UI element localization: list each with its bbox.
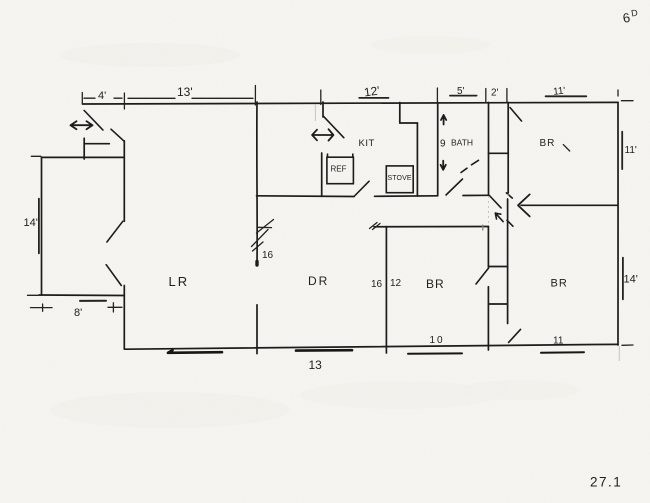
wire hall upper east wall [507,103,509,193]
svg-text:STOVE: STOVE [388,175,412,182]
door hall small leaf [506,193,512,198]
hatch on DR/BR wall [370,223,381,230]
wire left room top wall [42,156,124,158]
svg-text:REF: REF [331,165,347,174]
dim underline below left room wall [80,300,106,302]
svg-text:DR: DR [308,274,329,288]
door hall leaf 3 [507,220,513,226]
wire middle BR top wall [374,226,488,228]
dim line 13ft [128,97,253,99]
svg-text:KIT: KIT [359,138,375,149]
door left room leaf upper [107,221,123,242]
hatch diag 1 [257,220,274,234]
wire LR/DR wall end blob [255,262,258,266]
dim line right 14ft [622,258,624,300]
dim tick 8ft right [112,303,114,312]
wire faint continuation below bottom-right corner [618,346,620,361]
wire entry stub wall [83,138,85,159]
arrow 9 dim down [441,161,446,170]
svg-text:11': 11' [625,145,637,156]
dim line right 11ft [621,132,623,169]
svg-text:14': 14' [24,217,38,229]
dim line 5ft overline [450,95,477,97]
scan noise [50,36,580,428]
door entry leaf 2 [111,129,124,141]
svg-text:4': 4' [98,90,106,102]
svg-text:12': 12' [363,83,380,99]
wire hall lower rung 1 [488,266,507,268]
hatch diag 2 [252,230,269,247]
door bath swing dash 2 [472,160,479,165]
dim tick 12ft left [320,90,322,105]
svg-text:16: 16 [262,250,274,261]
svg-text:BR: BR [426,277,445,291]
dim underline below wall (13) [296,349,352,352]
door left room leaf lower [106,265,121,286]
wire hall lower east wall [507,199,509,324]
svg-text:14': 14' [624,274,638,286]
wire BR divider wall with arrow shaft [521,204,617,206]
arrow kitchen double [312,129,333,140]
wire entry closet shelf [84,143,109,145]
svg-text:16: 16 [371,279,383,290]
wire kitchen west stub lower [321,153,323,196]
wire DR/BR wall [385,227,387,353]
dim tick left room bottom corner [28,294,40,296]
wire left exterior wall lower segment [123,286,125,350]
svg-text:27.1: 27.1 [590,475,622,490]
door BR1 leaf [510,108,522,122]
wire kitchen/DR wall west part [257,195,355,198]
svg-text:12: 12 [390,278,402,289]
wire hall upper west wall [488,103,490,195]
dim line 8ft left piece [31,307,53,309]
wire faint hall wall continuation right [507,194,509,199]
svg-text:BR: BR [540,138,556,149]
wire bath west wall [437,103,439,196]
wire left room bottom wall [39,294,124,297]
wire bath south wall [463,194,489,196]
dim line 8ft right piece [108,306,122,308]
svg-text:2': 2' [491,88,499,99]
wire kitchen east wall [416,123,418,196]
door entry leaf 1 [84,111,103,131]
dim tick 8ft left [42,304,44,311]
dim tick left room top corner [31,155,41,157]
dim line left 14ft [38,199,40,254]
arrow entry double [71,121,93,129]
dim line 11ft overline [546,95,587,97]
dim underline below wall (11) [541,351,584,354]
svg-text:5': 5' [457,86,465,97]
hatch diag 3 [253,242,264,251]
dim underline below wall (LR) with hook [168,350,222,353]
dim tick bottom-right corner [622,344,633,346]
wire kitchen west stub upper [322,102,324,117]
wire hall lower west wall lower [487,287,489,350]
door bath leaf [446,179,463,195]
dim tick 4ft right [123,93,125,109]
stray mark near BR1 [563,145,569,151]
wire bottom exterior wall [125,344,619,349]
svg-text:10: 10 [430,335,445,346]
hatch on LR/DR wall tick [257,226,271,228]
wire hall lower west wall upper [487,227,489,267]
wire LR/DR wall upper [256,102,258,265]
door bath swing dash 1 [461,168,467,172]
wire top exterior wall [83,102,619,104]
tick on middle BR top wall [482,225,484,230]
svg-text:BATH: BATH [451,138,473,148]
wire left room left wall [41,157,43,295]
svg-text:13: 13 [309,358,323,372]
wire faint pencil stub kitchen door [314,104,316,121]
wire hall upper rung [489,152,509,154]
refrigerator REF box [327,157,354,184]
dim line 4ft [84,97,122,99]
svg-text:9: 9 [440,139,446,150]
wire right exterior wall [617,102,619,345]
stove box [386,166,413,193]
dim tick top-left 4ft left [81,93,83,105]
dim tick 12ft right / 5ft left [436,88,438,103]
door hall big leaf [489,196,501,208]
svg-text:8': 8' [74,307,82,319]
dim tick 13ft right [254,86,256,106]
arrow hall big left [518,194,530,216]
wire hall lower rung 2 [488,303,507,305]
svg-text:BR: BR [551,278,568,290]
dim line 12ft overline [359,97,388,99]
wire faint hall wall continuation left [488,196,490,226]
wire kitchen notch vertical [399,103,401,124]
dim tick top-right corner [618,90,633,101]
svg-text:13': 13' [177,85,193,99]
wire kitchen/DR wall east part [375,195,438,198]
wire kitchen notch horizontal [400,122,418,124]
dim tick 2ft left [485,89,487,103]
door kitchen/DR leaf [354,181,369,196]
wire left exterior wall upper segment [123,141,125,222]
dim tick 2ft right [506,89,508,103]
dim underline below wall (10) [408,352,462,354]
wire LR/DR wall lower [256,305,258,354]
svg-text:LR: LR [169,274,190,289]
door hall bottom leaf [509,329,521,342]
svg-text:11: 11 [553,336,564,347]
svg-text:11': 11' [553,86,566,98]
door hall arrow leaf [495,213,503,222]
door kitchen leaf [324,116,344,137]
door middle BR leaf [476,268,489,284]
arrow 9 dim up [441,115,446,125]
